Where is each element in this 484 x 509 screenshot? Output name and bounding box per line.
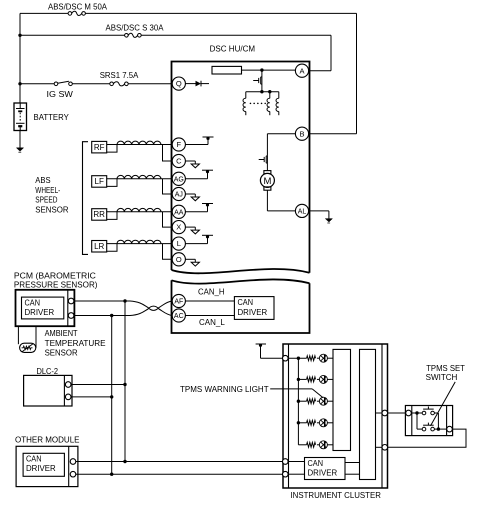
fuse ABS/DSC M 50A (68, 12, 72, 16)
node supply feed for instrument cluster (256, 343, 266, 345)
inductor solenoid coil 1 (245, 92, 247, 99)
thermistor ambient temperature sensor (20, 343, 36, 352)
pin switch input (406, 410, 412, 416)
pin C DSC HU/CM (172, 154, 185, 167)
wire main block to right pin upper (376, 412, 383, 414)
lamp indicator 5 (319, 441, 327, 449)
svg-text:SENSOR: SENSOR (45, 349, 78, 358)
node junction DLC-2 CAN_H (123, 383, 126, 386)
svg-text:PCM (BAROMETRIC: PCM (BAROMETRIC (14, 271, 96, 280)
pin A DSC HU/CM (295, 64, 308, 77)
pin AL DSC HU/CM (295, 204, 308, 217)
pin AF DSC HU/CM (172, 294, 185, 307)
pin O DSC HU/CM (172, 253, 185, 266)
wire RR twisted pair loops (117, 208, 161, 211)
wire battery to ground (19, 131, 21, 148)
switch IG SW (54, 82, 58, 86)
wire CAN_H PCM to twist (74, 300, 131, 302)
sensor RF wheel-speed sensor box (92, 141, 107, 153)
svg-text:CAN: CAN (308, 459, 324, 468)
wire twisted pair CAN_L (130, 306, 172, 315)
pin AJ DSC HU/CM (172, 187, 185, 200)
svg-text:INSTRUMENT CLUSTER: INSTRUMENT CLUSTER (291, 491, 382, 500)
svg-text:DLC-2: DLC-2 (37, 367, 59, 376)
pin DLC-2 CAN_L (65, 394, 71, 400)
lamp indicator 4 (319, 419, 327, 427)
pin OTHER MODULE CAN_H (70, 459, 76, 465)
svg-text:ABS/DSC M 50A: ABS/DSC M 50A (48, 2, 108, 11)
node junction at solenoid feed (260, 68, 263, 71)
svg-text:BATTERY: BATTERY (34, 113, 70, 122)
wire CAN_L bus to instrument cluster (76, 473, 283, 475)
wire pin B to motor branch (296, 133, 357, 135)
wire supply to cluster pin (261, 357, 283, 359)
svg-text:L: L (177, 239, 181, 248)
ground battery (16, 148, 23, 151)
pin L DSC HU/CM (172, 237, 185, 250)
svg-text:SRS1 7.5A: SRS1 7.5A (100, 71, 139, 80)
bracket sensor group (83, 142, 89, 255)
svg-text:SENSOR: SENSOR (35, 205, 69, 214)
connector OTHER MODULE right strip (68, 446, 70, 486)
module DSC HU/CM lower (CAN) box outline (172, 280, 310, 333)
wire RR signal wire to pin (107, 211, 173, 213)
lamp indicator 2 (319, 375, 327, 383)
module CAN DRIVER in DSC (234, 297, 274, 320)
ground internal for pin X (185, 226, 195, 228)
lamp indicator 1 (319, 354, 327, 362)
sensor LR wheel-speed sensor box (92, 241, 107, 253)
wire CAN driver to main block lower (345, 473, 360, 475)
wire LF return stub (107, 179, 117, 187)
wire LR twisted pair loops (117, 240, 161, 243)
pin AA DSC HU/CM (172, 205, 185, 218)
wire lamp row 3 (298, 400, 306, 402)
wire LF signal wire to pin (107, 178, 173, 180)
wire ABS/DSC M 50A feed from battery bus to DSC pin B rail (20, 12, 68, 14)
connector switch left strip (411, 406, 413, 436)
wire solenoid feed vertical (261, 70, 263, 92)
battery BATTERY (14, 103, 27, 131)
svg-text:TEMPERATURE: TEMPERATURE (45, 339, 106, 348)
wire ABS/DSC S 30A feed to DSC pin A (20, 34, 125, 36)
wire LR return stub (107, 244, 117, 252)
wire twisted pair CAN_H (130, 301, 172, 310)
wire switch input to contacts (411, 412, 422, 414)
wire CAN_L PCM to twist (74, 315, 131, 317)
pin PCM CAN_H (68, 298, 74, 304)
module PCM box (16, 290, 75, 326)
node junction bus row 1 (297, 357, 300, 360)
wire DLC-2 CAN_H to dropper (71, 384, 125, 386)
wire solenoid rail (246, 91, 279, 93)
node junction switch left (415, 411, 418, 414)
wire AF to CAN driver (CAN_H) (185, 300, 234, 302)
node junction rail / transistor (260, 90, 263, 93)
wire battery bus vertical (19, 13, 21, 103)
svg-text:SPEED: SPEED (35, 196, 57, 205)
svg-text:PRESSURE SENSOR): PRESSURE SENSOR) (14, 281, 98, 290)
svg-text:F: F (177, 140, 182, 149)
wire LF return drop to second pin (163, 179, 173, 194)
wire cluster CAN_L to driver (289, 473, 305, 475)
wire lamp row 5 (298, 444, 306, 446)
svg-text:DSC HU/CM: DSC HU/CM (210, 44, 256, 53)
connector switch right strip (446, 406, 448, 436)
node junction CAN_L dropper (110, 314, 113, 317)
node junction bus row 4 (297, 421, 300, 424)
resistor block internal (212, 66, 242, 74)
ground DSC pin AL (325, 219, 332, 222)
node junction bus / IG SW (18, 82, 21, 85)
sensor RR wheel-speed sensor box (92, 209, 107, 221)
svg-text:OTHER MODULE: OTHER MODULE (15, 435, 80, 444)
svg-text:RF: RF (94, 143, 105, 152)
resistor lamp row 2 (307, 377, 316, 382)
svg-text:C: C (176, 157, 182, 166)
diode D1 after pin Q (185, 83, 195, 85)
svg-text:B: B (299, 129, 304, 138)
pin DLC-2 CAN_H (65, 382, 71, 388)
resistor lamp row 3 (307, 399, 316, 404)
svg-text:LR: LR (94, 242, 104, 251)
wire cluster to switch (388, 412, 407, 414)
pin AG DSC HU/CM (172, 172, 185, 185)
wire lamp row 2 (298, 378, 306, 380)
connector PCM right strip (67, 290, 69, 326)
wire RF signal wire to pin (107, 144, 173, 146)
node junction bus row 2 (297, 378, 300, 381)
resistor lamp row 1 (307, 356, 316, 361)
module DLC-2 box (24, 375, 72, 406)
svg-text:CAN: CAN (25, 298, 41, 307)
node internal supply for pin F (185, 144, 208, 146)
pin cluster CAN_H (283, 459, 289, 465)
wire RF return stub (107, 145, 117, 153)
pin cluster CAN_L (283, 471, 289, 477)
svg-text:AC: AC (174, 313, 184, 320)
wire RR return drop to second pin (163, 212, 173, 227)
fuse ABS/DSC S 30A (125, 34, 129, 38)
node junction CAN_H dropper (123, 299, 126, 302)
module CAN DRIVER in PCM (22, 297, 64, 319)
wire callout to warning lamp (270, 388, 312, 390)
sensor LF wheel-speed sensor box (92, 176, 107, 188)
node junction CAN_L at dropper (110, 473, 113, 476)
wire RR return stub (107, 212, 117, 220)
pin cluster TPMS switch return (382, 445, 388, 451)
svg-text:IG SW: IG SW (47, 90, 74, 99)
svg-text:RR: RR (93, 210, 105, 219)
switch TPMS set contact row 2 (417, 428, 422, 430)
lamp indicator 3 (319, 397, 327, 405)
module OTHER MODULE box (16, 446, 78, 486)
svg-text:Q: Q (176, 79, 182, 88)
pin PCM CAN_L (68, 313, 74, 319)
module CAN DRIVER in cluster (305, 458, 346, 480)
module cluster main block (360, 349, 376, 479)
connector cluster left strip (288, 344, 290, 488)
wire row1 right link (434, 412, 438, 414)
pin F DSC HU/CM (172, 138, 185, 151)
node junction bus row 3 (297, 400, 300, 403)
fuse SRS1 7.5A (110, 82, 114, 86)
transistor Q2 pump motor driver (265, 156, 267, 163)
wire main block to right pin lower (376, 446, 383, 448)
svg-text:AJ: AJ (175, 192, 183, 199)
svg-text:CAN: CAN (238, 298, 254, 307)
resistor lamp row 4 (307, 420, 316, 425)
svg-text:AMBIENT: AMBIENT (45, 329, 78, 338)
node internal supply for pin AG (185, 178, 207, 180)
wire cluster CAN_H to driver (289, 461, 305, 463)
module cluster display block (333, 349, 351, 450)
wire CAN_H bus to instrument cluster (76, 461, 283, 463)
ground internal for pin O (185, 258, 195, 260)
wire lamp row 4 (298, 422, 306, 424)
wire callout to switch (431, 382, 456, 426)
module DSC HU/CM upper box outline (172, 62, 310, 273)
node junction bus / S30A (18, 34, 21, 37)
wire DSC lower box torn-edge wave (172, 279, 310, 283)
svg-text:CAN: CAN (26, 455, 42, 464)
svg-text:X: X (176, 223, 181, 232)
node junction switch right (434, 428, 446, 430)
module CAN DRIVER in OTHER MODULE (23, 453, 64, 476)
svg-text:AG: AG (174, 176, 184, 183)
wire AC to CAN driver (CAN_L) (185, 315, 234, 317)
wire CAN_L vertical dropper (111, 316, 113, 475)
wire dotted continuation between coils (250, 102, 265, 104)
svg-text:A: A (299, 66, 304, 75)
svg-text:DRIVER: DRIVER (238, 308, 268, 317)
wire RF return drop to second pin (163, 145, 173, 162)
wire DSC upper box torn-edge wave (172, 269, 310, 273)
svg-text:AF: AF (174, 299, 183, 306)
wire LF twisted pair loops (117, 175, 161, 178)
wire IG SW / SRS1 7.5A line to DSC pin Q (20, 83, 54, 85)
inductor solenoid coil 2 (269, 92, 271, 99)
svg-text:M: M (263, 176, 271, 187)
node junction DLC-2 CAN_L (110, 395, 113, 398)
node internal supply for pin L (185, 243, 207, 245)
pin cluster to TPMS switch feed (382, 410, 388, 416)
svg-text:SWITCH: SWITCH (426, 373, 458, 382)
wire lamp row 1 (289, 357, 307, 359)
module INSTRUMENT CLUSTER box (283, 344, 388, 488)
pin AC DSC HU/CM (172, 309, 185, 322)
svg-text:CAN_L: CAN_L (199, 318, 225, 327)
pin switch output (447, 426, 453, 432)
wire RF twisted pair loops (117, 141, 161, 144)
inductor solenoid coil 3 (278, 92, 280, 99)
connector cluster right strip (381, 344, 383, 488)
wire CAN_H vertical dropper (124, 301, 126, 462)
pin Q DSC HU/CM (172, 77, 185, 90)
svg-text:ABS: ABS (35, 176, 50, 185)
svg-text:CAN_H: CAN_H (198, 288, 225, 297)
pin B DSC HU/CM (295, 127, 308, 140)
pin X DSC HU/CM (172, 221, 185, 234)
svg-text:DRIVER: DRIVER (25, 308, 55, 317)
svg-text:TPMS SET: TPMS SET (426, 364, 465, 373)
wire DLC-2 CAN_L to dropper (71, 396, 112, 398)
wire LR return drop to second pin (163, 244, 173, 260)
module TPMS SET SWITCH box (405, 406, 452, 436)
svg-text:AL: AL (298, 209, 307, 216)
connector DLC-2 right strip (63, 375, 65, 406)
wire CAN driver to main block upper (345, 462, 360, 464)
wire PCM to ambient sensor lead 2 (35, 326, 37, 348)
node junction CAN_H at dropper (123, 460, 126, 463)
svg-text:DRIVER: DRIVER (26, 464, 56, 473)
wire lamp supply bus vertical (297, 358, 299, 445)
wire LR signal wire to pin (107, 243, 173, 245)
svg-text:TPMS WARNING LIGHT: TPMS WARNING LIGHT (180, 385, 269, 394)
wire motor to pin AL (266, 190, 268, 211)
svg-text:ABS/DSC S 30A: ABS/DSC S 30A (106, 24, 165, 33)
svg-text:WHEEL-: WHEEL- (35, 186, 60, 195)
node internal supply for pin AA (185, 211, 207, 213)
transistor Q1 solenoid driver (260, 77, 262, 84)
pin cluster supply (283, 355, 289, 361)
ground internal for pin AJ (185, 193, 195, 195)
pin OTHER MODULE CAN_L (70, 471, 76, 477)
wire pin AL to ground (309, 210, 329, 212)
motor M pump (264, 171, 271, 174)
svg-text:LF: LF (95, 177, 104, 186)
node junction rail / coil2 (268, 90, 271, 93)
svg-text:DRIVER: DRIVER (308, 468, 338, 477)
wire PCM to ambient sensor lead 1 (17, 326, 19, 344)
wire switch left vertical (416, 413, 418, 429)
switch TPMS set contact row 1 (422, 411, 426, 415)
wire switch return to cluster (388, 429, 466, 447)
resistor lamp row 5 (307, 442, 316, 447)
ground internal for pin C (185, 160, 195, 162)
svg-text:O: O (176, 255, 182, 264)
wire internal rect to pin A (242, 69, 296, 71)
svg-text:AA: AA (174, 209, 184, 216)
